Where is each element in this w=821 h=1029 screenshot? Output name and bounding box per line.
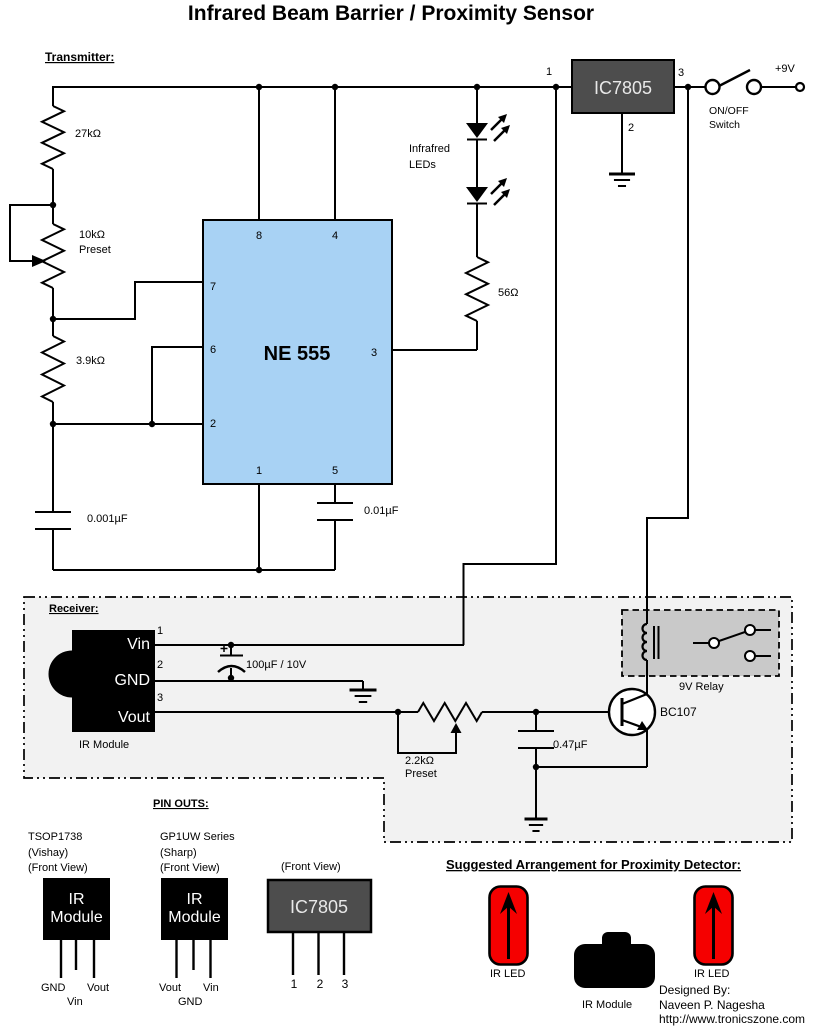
svg-text:1: 1	[157, 625, 163, 637]
wire left branch from rail to R 27k	[52, 86, 54, 106]
svg-text:0.01µF: 0.01µF	[364, 505, 399, 517]
wire LED1 to LED2	[476, 139, 478, 187]
wire to NE555 pin 2	[53, 423, 203, 425]
svg-text:0.47µF: 0.47µF	[553, 739, 588, 751]
wire IC7805 pin2 to ground	[621, 113, 623, 173]
svg-text:3: 3	[371, 347, 377, 359]
IR LED left (red)	[490, 887, 528, 965]
relay coil	[643, 624, 647, 660]
svg-text:6: 6	[210, 344, 216, 356]
svg-text:IC7805: IC7805	[290, 897, 348, 917]
switch throw contact	[747, 80, 761, 94]
capacitor 0.01uF	[317, 502, 353, 504]
wire GND line	[155, 680, 363, 682]
capacitor 0.47uF	[535, 712, 537, 731]
svg-text:0.001µF: 0.001µF	[87, 513, 128, 525]
relay lever	[719, 632, 745, 641]
svg-text:Preset: Preset	[405, 768, 437, 780]
wire preset to node	[52, 288, 54, 319]
svg-text:IR: IR	[69, 891, 85, 908]
receiver dashed enclosure	[24, 597, 792, 842]
IR module blob	[602, 932, 631, 950]
wire node down to C 0.001uF	[52, 424, 54, 512]
wire R56 to pin3	[476, 321, 478, 350]
node junction pin3/relay branch	[685, 84, 691, 90]
wire switch to +9V terminal	[761, 86, 796, 88]
wire rail to LED1	[476, 87, 478, 123]
wire NE555 pin 3 to R56	[392, 349, 477, 351]
svg-text:IR LED: IR LED	[490, 968, 526, 980]
relay common contact	[709, 638, 719, 648]
relay NO contact	[745, 625, 755, 635]
wire NE555 pin 8 to rail	[258, 87, 260, 220]
svg-text:2: 2	[317, 977, 324, 991]
svg-text:GND: GND	[41, 982, 66, 994]
IR LED left arrow	[507, 903, 510, 959]
svg-text:Preset: Preset	[79, 244, 111, 256]
svg-text:(Front View): (Front View)	[160, 862, 220, 874]
svg-text:(Sharp): (Sharp)	[160, 847, 197, 859]
IR module lens bulge	[49, 651, 96, 698]
svg-text:(Front View): (Front View)	[281, 861, 341, 873]
node junction pin7	[50, 316, 56, 322]
wire to NE555 pin 7	[53, 282, 203, 319]
IC7805 legs	[292, 932, 294, 975]
svg-text:+9V: +9V	[775, 63, 796, 75]
svg-text:2.2kΩ: 2.2kΩ	[405, 755, 434, 767]
switch ON/OFF pole	[706, 80, 720, 94]
node junction preset loop	[395, 709, 401, 715]
node junction pin6/pin2	[149, 421, 155, 427]
svg-text:3.9kΩ: 3.9kΩ	[76, 355, 105, 367]
node junction pin1/bottom	[256, 567, 262, 573]
svg-text:http://www.tronicszone.com: http://www.tronicszone.com	[659, 1012, 805, 1026]
IR module body	[72, 630, 155, 732]
svg-text:Switch: Switch	[709, 119, 740, 131]
wire NE555 pin 1 down	[258, 484, 260, 570]
potentiometer 10k preset	[42, 224, 64, 288]
svg-text:7: 7	[210, 281, 216, 293]
svg-text:NE 555: NE 555	[264, 343, 331, 365]
svg-text:Module: Module	[168, 909, 221, 926]
svg-text:Infrared Beam Barrier / Proxim: Infrared Beam Barrier / Proximity Sensor	[188, 2, 594, 25]
resistor 3.9k	[42, 336, 64, 402]
svg-text:3: 3	[678, 67, 684, 79]
svg-text:GND: GND	[114, 672, 150, 689]
LED D1 infrared	[466, 123, 488, 138]
svg-text:Vin: Vin	[67, 996, 83, 1008]
wire to receiver ground	[535, 767, 537, 818]
wire IC7805 pin3 to switch	[674, 86, 707, 88]
svg-text:9V Relay: 9V Relay	[679, 681, 724, 693]
svg-text:(Front View): (Front View)	[28, 862, 88, 874]
resistor 56 ohm	[466, 257, 488, 321]
svg-text:56Ω: 56Ω	[498, 287, 518, 299]
svg-text:2: 2	[157, 659, 163, 671]
svg-text:Transmitter:: Transmitter:	[45, 50, 114, 64]
svg-text:TSOP1738: TSOP1738	[28, 831, 82, 843]
svg-text:2: 2	[628, 122, 634, 134]
svg-text:3: 3	[342, 977, 349, 991]
wire pot to transistor base	[482, 711, 621, 713]
svg-text:Vin: Vin	[127, 636, 150, 653]
ground symbol below IC7805	[609, 173, 635, 176]
svg-text:Receiver:: Receiver:	[49, 603, 99, 615]
wire Vout line	[155, 711, 418, 713]
wire emitter return	[536, 766, 647, 768]
transistor Q1 BC107	[609, 689, 655, 735]
wiper arrow of 10k preset	[32, 255, 46, 267]
svg-text:GP1UW Series: GP1UW Series	[160, 831, 235, 843]
wire R27k to pot junction	[52, 169, 54, 205]
potentiometer 2.2k preset	[418, 703, 482, 721]
wiper arrow of 2.2k preset	[451, 723, 462, 733]
wire coil to collector	[646, 660, 648, 694]
wire NE555 pin 4 to rail	[334, 87, 336, 220]
resistor 27k	[42, 106, 64, 169]
svg-text:Vout: Vout	[159, 982, 181, 994]
wire emitter down	[646, 729, 648, 767]
svg-text:ON/OFF: ON/OFF	[709, 105, 749, 117]
svg-text:Vout: Vout	[87, 982, 109, 994]
TSOP1738 IR module package	[43, 878, 110, 940]
svg-text:1: 1	[291, 977, 298, 991]
svg-text:IC7805: IC7805	[594, 78, 652, 98]
svg-text:100µF / 10V: 100µF / 10V	[246, 659, 307, 671]
wire bottom ground rail	[53, 569, 335, 571]
IR LED right (red)	[695, 887, 733, 965]
op-amp/timer IC NE555	[203, 220, 392, 484]
GP1UW IR module package	[161, 878, 228, 940]
wire to NE555 pin 6	[152, 347, 203, 424]
TSOP1738 legs	[60, 940, 62, 978]
node junction top of preset	[50, 202, 56, 208]
IR LED right arrow	[712, 903, 715, 959]
relay 9V box	[622, 610, 779, 676]
relay contact stub left	[693, 642, 709, 644]
relay NC contact	[745, 651, 755, 661]
svg-text:Naveen P. Nagesha: Naveen P. Nagesha	[659, 998, 765, 1012]
svg-text:1: 1	[546, 66, 552, 78]
svg-text:Infrafred: Infrafred	[409, 143, 450, 155]
svg-text:Vout: Vout	[118, 709, 151, 726]
svg-text:IR Module: IR Module	[582, 999, 632, 1011]
wire node to R 3.9k	[52, 319, 54, 336]
wire LED2 to R56	[476, 203, 478, 257]
svg-text:27kΩ: 27kΩ	[75, 128, 101, 140]
voltage regulator IC7805	[572, 60, 674, 113]
svg-text:IR LED: IR LED	[694, 968, 730, 980]
svg-text:IR Module: IR Module	[79, 739, 129, 751]
node junction base/cap	[533, 709, 539, 715]
ground symbol receiver bottom	[525, 818, 548, 821]
wire preset wiper loop	[398, 712, 456, 753]
wire R3.9k to pin2 node	[52, 402, 54, 424]
wire Vin line	[155, 644, 464, 646]
LED D1 emission arrows	[491, 118, 503, 130]
polarity plus sign	[221, 645, 228, 652]
svg-text:2: 2	[210, 418, 216, 430]
svg-text:Module: Module	[50, 909, 103, 926]
switch lever	[719, 70, 750, 86]
svg-text:4: 4	[332, 230, 338, 242]
LED D2 emission arrows	[491, 182, 503, 194]
svg-text:BC107: BC107	[660, 705, 697, 719]
node junction pin2 left	[50, 421, 56, 427]
wire NE555 pin 5 to C 0.01uF	[334, 484, 336, 503]
svg-text:GND: GND	[178, 996, 203, 1008]
+9V terminal	[796, 83, 804, 91]
svg-text:3: 3	[157, 692, 163, 704]
svg-text:PIN OUTS:: PIN OUTS:	[153, 798, 209, 810]
wire top +V rail	[53, 86, 572, 88]
wire pin3 node down to relay coil	[647, 87, 688, 624]
ground symbol receiver	[362, 681, 364, 689]
svg-text:Suggested Arrangement for Prox: Suggested Arrangement for Proximity Dete…	[446, 857, 741, 872]
svg-text:5: 5	[332, 465, 338, 477]
svg-text:Designed By:: Designed By:	[659, 983, 730, 997]
svg-text:10kΩ: 10kΩ	[79, 229, 105, 241]
svg-text:1: 1	[256, 465, 262, 477]
wire C0.01 to bottom rail	[334, 520, 336, 570]
svg-text:Vin: Vin	[203, 982, 219, 994]
svg-text:IR: IR	[187, 891, 203, 908]
wire preset wiper loop	[10, 205, 53, 261]
svg-text:(Vishay): (Vishay)	[28, 847, 68, 859]
wire C0.001 to bottom rail	[52, 529, 54, 570]
wire junction to 10k preset	[52, 205, 54, 224]
GP1UW legs	[175, 940, 177, 978]
capacitor 100uF/10V electrolytic	[228, 642, 234, 648]
capacitor 0.001uF	[35, 511, 71, 513]
wire rail down to receiver Vin	[464, 87, 557, 645]
svg-text:LEDs: LEDs	[409, 159, 436, 171]
svg-text:8: 8	[256, 230, 262, 242]
relay core lines	[654, 626, 659, 659]
IC7805 package	[268, 880, 371, 932]
LED D2 infrared	[466, 187, 488, 202]
